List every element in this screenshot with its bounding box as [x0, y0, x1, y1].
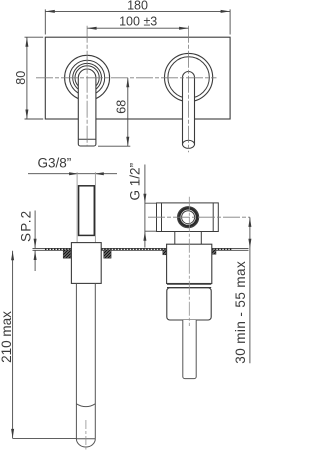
front view plate [45, 37, 230, 119]
wall anchor hatch square left-left [63, 250, 70, 258]
dimension 180 arrow right [221, 10, 231, 13]
dimension 180 line [45, 10, 230, 12]
dimension 80 arrow bottom [25, 110, 28, 120]
left handle ring 4 [75, 66, 99, 90]
wall hatch strip [45, 248, 232, 250]
svg-text:100 ±3: 100 ±3 [119, 14, 157, 28]
svg-text:68: 68 [114, 100, 128, 114]
dimension 80 line [26, 37, 28, 119]
dimension 80 arrow top [25, 37, 28, 47]
mixer body box lower [167, 288, 211, 320]
G3/8 arrow left [69, 172, 79, 175]
lever shaft joint arc [76, 404, 95, 407]
dimension 100±3 arrow left [87, 27, 97, 30]
svg-text:210 max: 210 max [0, 311, 14, 363]
G 1/2 dimension extension lines [145, 203, 157, 231]
left lever end cap line [78, 138, 96, 140]
30 min - 55 max arrow at valve axis [248, 217, 251, 227]
Sp.2 dimension line lower [34, 251, 36, 272]
lever shaft centerline [85, 420, 87, 450]
left handle ring 3 [73, 63, 102, 92]
svg-text:80: 80 [14, 71, 28, 85]
dimension 68 arrow top [126, 78, 129, 88]
G3/8 dimension line with arrows [28, 173, 117, 175]
30 min - 55 max arrow at wall plane [248, 239, 251, 249]
dimension 80 extension lines [25, 37, 44, 119]
Sp.2 arrow up [34, 251, 37, 261]
valve body block (left, at wall) [71, 243, 101, 284]
svg-text:30 min - 55 max: 30 min - 55 max [233, 261, 248, 364]
G 1/2 arrow down [143, 231, 146, 241]
horizontal centerline through both trim centers [36, 77, 217, 79]
spout outlet pipe (side) [183, 320, 196, 379]
mixer valve port outer circle [178, 207, 199, 228]
left vertical centerline [86, 26, 88, 146]
lever shaft end cap [76, 439, 95, 447]
lever handle shaft (side view) [76, 283, 95, 438]
mixer valve cylinder end lines [162, 203, 214, 232]
left lever handle (front) [78, 69, 96, 146]
supply pipe thread section [79, 186, 95, 236]
Sp.2 arrow down [34, 239, 37, 249]
supply pipe outer profile [77, 172, 95, 242]
wall plate edge lines [33, 248, 249, 250]
svg-text:G3/8”: G3/8” [38, 155, 72, 170]
30 min - 55 max dimension line [249, 217, 251, 363]
G3/8 arrow right [94, 172, 104, 175]
dimension 100±3 line [87, 27, 189, 29]
210 max arrow bottom [11, 429, 14, 439]
right spout escutcheon outer circle [165, 53, 213, 101]
right assembly vertical centerline [188, 197, 190, 326]
right spout tube end ellipse [183, 140, 195, 148]
svg-text:180: 180 [127, 0, 148, 13]
mixer body box upper [167, 244, 212, 283]
dimension 68 extension line [98, 145, 130, 147]
right assembly horizontal centerline [148, 216, 250, 218]
dimension 68 arrow bottom [126, 137, 129, 147]
G 1/2 dimension line [144, 165, 146, 248]
right vertical centerline [188, 26, 190, 153]
left handle escutcheon circle [65, 55, 110, 100]
mixer valve horizontal cylinder [157, 203, 219, 232]
G 1/2 arrow up [143, 194, 146, 204]
wall anchor hatch square right-left [163, 250, 167, 255]
right spout escutcheon inner circle [168, 57, 209, 98]
210 max dimension line [12, 251, 14, 439]
svg-text:G 1/2”: G 1/2” [128, 163, 143, 201]
right spout tube (front) [183, 72, 195, 145]
Sp.2 dimension line upper [34, 211, 36, 249]
dimension 180 extension lines [45, 9, 230, 34]
dimension 180 arrow left [45, 10, 55, 13]
wall anchor hatch square right-right [212, 250, 216, 255]
mixer valve port inner circle [182, 211, 195, 224]
210 max arrow top [11, 251, 14, 260]
wall anchor hatch square left-right [104, 250, 111, 258]
dimension 68 line [127, 78, 129, 146]
210 max extension line at handle tip [13, 438, 77, 440]
mixer valve port thread ring [179, 208, 197, 226]
svg-text:SP.2: SP.2 [19, 210, 34, 242]
left handle ring 2 [70, 60, 105, 95]
dimension 100±3 arrow right [179, 27, 189, 30]
mixer valve neck [175, 232, 202, 245]
mixer body divider lines [167, 284, 211, 287]
